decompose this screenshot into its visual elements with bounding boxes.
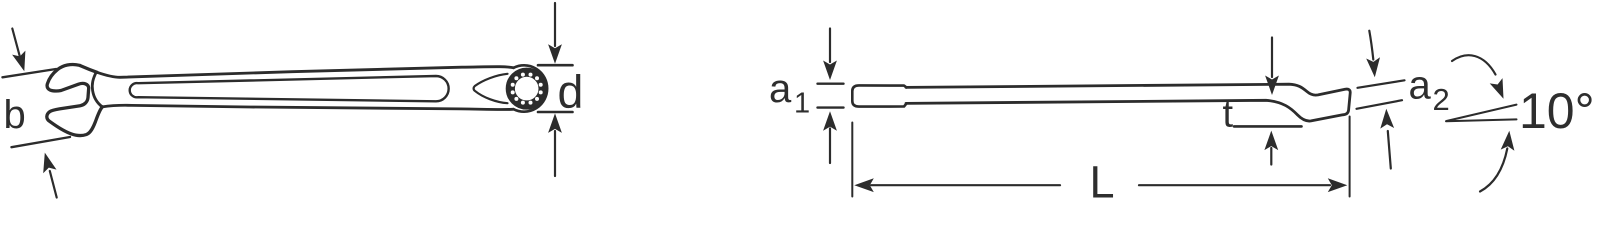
a1 top tick — [818, 82, 844, 84]
a2 extension line top — [1358, 80, 1405, 88]
dimension b bottom arrow — [50, 171, 57, 198]
shaft top line (top view) — [97, 67, 514, 78]
svg-text:L: L — [1090, 157, 1115, 201]
svg-text:2: 2 — [1433, 82, 1450, 117]
svg-text:a: a — [769, 67, 792, 111]
head neck crease — [92, 72, 102, 107]
a2 extension line bottom — [1357, 100, 1403, 109]
d bottom tick — [538, 111, 573, 114]
ring serration dots — [511, 73, 543, 105]
svg-text:10°: 10° — [1519, 83, 1595, 139]
ring annulus (bi-hex) — [510, 72, 543, 105]
d bottom arrow — [554, 131, 556, 176]
dimension b top line — [3, 69, 57, 77]
svg-text:b: b — [4, 93, 26, 137]
a1 bottom arrow — [823, 111, 837, 131]
open-end head outline (top view wrench) — [47, 65, 102, 136]
dimension b bottom line — [12, 137, 71, 147]
a2 bottom arrow — [1388, 131, 1391, 169]
ring boss outer outline — [514, 65, 548, 111]
d top tick — [538, 64, 573, 67]
L extension line right — [1349, 117, 1351, 197]
svg-text:a: a — [1409, 64, 1432, 108]
t tick — [1234, 125, 1302, 128]
angle wedge top line — [1447, 105, 1517, 121]
svg-text:1: 1 — [794, 88, 810, 120]
d top arrow — [554, 3, 556, 46]
side view head block — [852, 85, 906, 106]
svg-text:d: d — [558, 66, 584, 118]
L extension line left — [851, 123, 853, 197]
svg-text:t: t — [1223, 93, 1234, 135]
t top arrow — [1271, 38, 1273, 78]
a2 top arrow — [1369, 31, 1373, 60]
L dimension line right with arrow — [1139, 184, 1330, 186]
dimension b top arrow — [12, 29, 20, 60]
ring neck teardrop — [474, 74, 508, 103]
side view shaft and bent ring end outline — [906, 84, 1350, 121]
shaft slot — [130, 76, 449, 101]
a1 bottom tick — [818, 106, 844, 108]
angle bottom curved arrow — [1480, 149, 1507, 192]
shaft bottom line (top view) — [102, 105, 513, 109]
angle top curved arrow — [1452, 55, 1496, 74]
angle wedge bottom line — [1446, 119, 1517, 121]
t bottom arrow — [1264, 131, 1278, 151]
L dimension line left with arrow — [854, 178, 874, 192]
a1 top arrow — [829, 29, 831, 63]
